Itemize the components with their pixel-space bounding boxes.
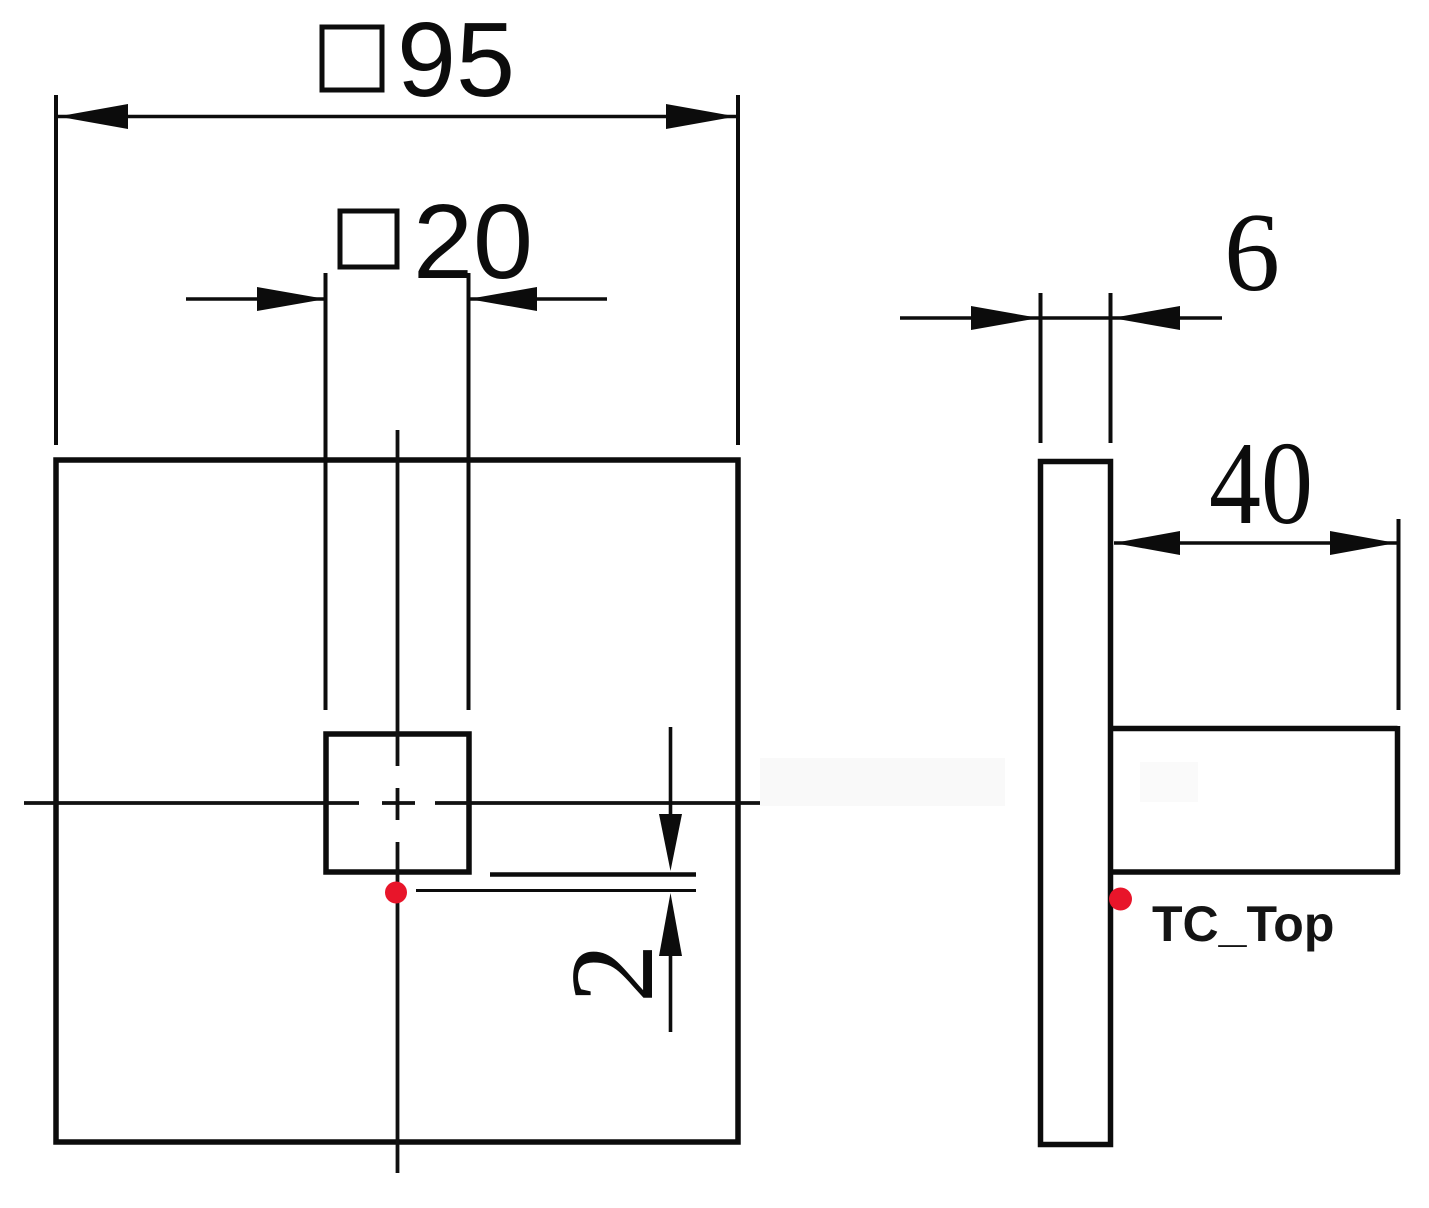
dimension 20: left arrowhead pointing right	[257, 287, 326, 311]
dimension 95: dimension line	[58, 115, 736, 119]
dimension 6: extension line right	[1109, 293, 1113, 443]
dimension 20: right arrowhead pointing left	[469, 287, 538, 311]
svg-text:6: 6	[1224, 191, 1280, 315]
dimension 6: right tail line	[1112, 316, 1222, 320]
dimension 20: square symbol	[340, 211, 397, 267]
dimension 2: bottom extension line	[416, 889, 696, 892]
side view: boss bottom edge	[1111, 869, 1400, 875]
dimension 20: extension line right	[467, 273, 471, 710]
dimension 40: left arrowhead pointing left	[1114, 531, 1180, 555]
dimension 40: dimension line	[1114, 541, 1397, 545]
side view: boss right edge	[1395, 726, 1401, 874]
dimension 2: lower dimension line	[669, 954, 673, 1032]
dimension 20: extension line left	[324, 273, 328, 710]
svg-text:20: 20	[413, 183, 533, 301]
dimension 95: extension line left	[54, 95, 58, 445]
dimension 6: left arrowhead pointing right	[971, 306, 1039, 330]
dimension 2: upper arrowhead pointing down	[659, 814, 682, 871]
dimension 2: lower arrowhead pointing up	[659, 893, 682, 956]
side view: boss top edge	[1111, 726, 1398, 732]
dimension 6: left tail line	[900, 316, 1039, 320]
dimension 40: extension line right	[1397, 519, 1401, 710]
faint ghost artifact	[760, 758, 1005, 806]
svg-text:95: 95	[397, 1, 515, 119]
side view: plate outline	[1041, 462, 1111, 1145]
dimension 2: top extension line	[490, 872, 696, 877]
svg-text:TC_Top: TC_Top	[1152, 896, 1334, 952]
dimension 95: left arrowhead	[58, 104, 128, 129]
side view: red TC point	[1109, 888, 1132, 911]
front view: main square plate outline 95x95	[56, 460, 738, 1142]
front view: small square boss 20x20	[326, 734, 469, 872]
front view: red TC point	[385, 882, 407, 904]
dimension 2: upper dimension line	[669, 727, 673, 816]
dimension 6: middle segment	[1040, 316, 1111, 320]
svg-text:40: 40	[1209, 417, 1313, 549]
dimension 6: extension line left	[1039, 293, 1043, 443]
dimension 95: square symbol	[322, 27, 382, 90]
dimension 20: dimension line left tail	[186, 297, 325, 301]
faint ghost artifact	[1140, 762, 1198, 802]
svg-text:2: 2	[546, 944, 678, 1004]
dimension 95: right arrowhead	[666, 104, 736, 129]
vertical centerline of front view	[396, 430, 400, 1173]
dimension 95: extension line right	[736, 95, 740, 445]
dimension 40: right arrowhead pointing right	[1330, 531, 1396, 555]
horizontal centerline of front view	[24, 801, 771, 805]
dimension 20: dimension line right tail	[469, 297, 607, 301]
dimension 6: right arrowhead pointing left	[1112, 306, 1180, 330]
